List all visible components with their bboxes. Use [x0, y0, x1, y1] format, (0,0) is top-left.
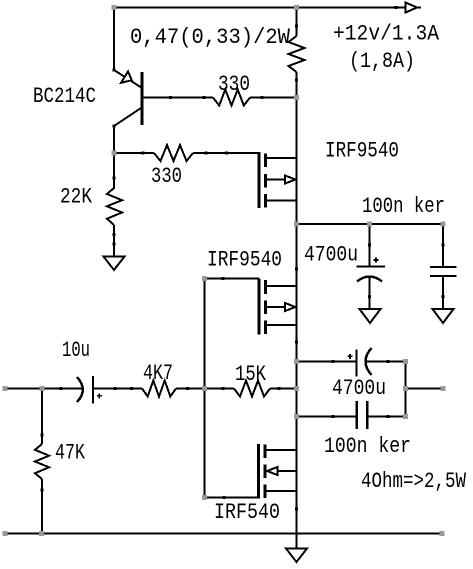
- node input terminal: [3, 386, 8, 391]
- capacitor C5 100n ker (output) left lead: [297, 416, 356, 418]
- capacitor C1 10u plates: [77, 377, 83, 402]
- MOSFET U1 source stub: [266, 157, 297, 159]
- resistor 47K lead bottom: [41, 479, 43, 534]
- wire top rail: [114, 7, 297, 9]
- MOSFET U2 IRF9540 (middle) gate wire: [205, 278, 260, 280]
- ground below 22K: [104, 257, 125, 271]
- capacitor C2 plus mark: [374, 259, 379, 261]
- MOSFET U3 source stub: [265, 490, 297, 492]
- node coupling bottom right corner: [403, 414, 408, 419]
- svg-text:4Ohm=>2,5W: 4Ohm=>2,5W: [361, 469, 467, 494]
- node 0,47 bottom / base resistor junction: [294, 95, 299, 100]
- wire resistor 330 lower to gate of U1: [193, 152, 259, 154]
- node top-left corner: [112, 5, 117, 10]
- svg-text:47K: 47K: [55, 441, 86, 466]
- MOSFET U3 body stub with arrow: [267, 467, 278, 475]
- wire node to resistor 330 (lower): [114, 152, 154, 154]
- capacitor C3 lead bottom: [442, 277, 444, 309]
- node top rail / 0,47 junction: [294, 5, 299, 10]
- svg-text:0,47(0,33)/2W: 0,47(0,33)/2W: [130, 25, 291, 50]
- pin dot: [395, 6, 398, 9]
- MOSFET U2 body stub with arrow: [266, 306, 286, 308]
- resistor 4K7: [142, 381, 176, 397]
- capacitor C4 plus mark: [348, 355, 353, 357]
- wire left vertical from top rail to emitter: [113, 8, 115, 71]
- svg-text:330: 330: [151, 164, 182, 189]
- capacitor C4 4700u plates: [355, 350, 357, 377]
- node gate rail / input line crossing: [202, 386, 207, 391]
- MOSFET U1 drain stub: [266, 200, 297, 202]
- MOSFET U2 drain stub: [266, 324, 297, 326]
- node 47K bottom on rail: [39, 531, 44, 536]
- MOSFET U3 gate wire: [205, 497, 259, 499]
- wire main rail from 0,47 node through U1 to output node: [296, 98, 298, 225]
- wire main rail U1 to U2: [295, 268, 298, 271]
- wire main rail through coupling block: [296, 362, 298, 417]
- resistor 47K: [35, 444, 49, 479]
- node output filter rail left: [294, 222, 299, 227]
- svg-text:10u: 10u: [62, 338, 90, 363]
- wire U3 source rail to ground: [296, 450, 298, 549]
- wire top right to supply arrow: [297, 7, 406, 9]
- wire 4K7 to 15K: [176, 388, 234, 390]
- resistor 22K lead top: [113, 153, 115, 189]
- node bottom-right terminal: [440, 531, 445, 536]
- transistor Q1 emitter arrow: [121, 72, 132, 83]
- capacitor C3 100n plates: [430, 266, 457, 268]
- svg-text:4700u: 4700u: [304, 243, 358, 268]
- resistor 22K: [107, 188, 122, 225]
- node bottom-left terminal: [3, 531, 8, 536]
- capacitor C4 4700u (output coupling) left lead: [297, 361, 356, 363]
- ground below C2: [360, 309, 381, 323]
- resistor 330 (lower, gate): [154, 145, 193, 161]
- svg-text:4K7: 4K7: [143, 361, 173, 386]
- capacitor C2 4700u (supply filter) lead top: [369, 224, 371, 266]
- svg-text:BC214C: BC214C: [33, 84, 96, 109]
- MOSFET U2 channel dashes: [264, 280, 267, 294]
- node U2 gate corner: [202, 276, 207, 281]
- node output terminal: [441, 386, 446, 391]
- wire C1 to resistor 4K7: [94, 388, 142, 390]
- MOSFET U1 body stub with arrow: [266, 179, 286, 181]
- node coupling top right corner: [403, 359, 408, 364]
- wire gate rail left: [204, 279, 206, 498]
- node U3 gate corner: [202, 495, 207, 500]
- ground below C3: [433, 309, 454, 323]
- wire bottom rail: [5, 533, 442, 535]
- capacitor C5 100n plates: [356, 401, 358, 429]
- svg-text:(1,8A): (1,8A): [349, 49, 415, 74]
- svg-text:IRF9540: IRF9540: [325, 139, 399, 164]
- svg-text:IRF9540: IRF9540: [207, 248, 282, 273]
- transistor Q1 collector diagonal: [114, 108, 141, 126]
- resistor 15K: [234, 381, 270, 397]
- capacitor C4 right lead: [366, 361, 406, 363]
- node coupling bottom left: [294, 414, 299, 419]
- wire 100n ker rail: [297, 223, 444, 225]
- wire base to resistor 330 (upper): [142, 97, 213, 99]
- svg-text:330: 330: [218, 72, 250, 97]
- resistor 330 (upper, base): [213, 90, 250, 106]
- MOSFET U3 IRF540 gate bar: [257, 444, 260, 499]
- MOSFET U2 source stub: [266, 285, 297, 287]
- resistor 47K lead top: [41, 389, 43, 445]
- transistor Q1 base bar: [141, 72, 144, 125]
- +12V supply arrow terminal: [406, 3, 418, 13]
- capacitor C2 4700u plates: [356, 265, 385, 267]
- node 47K junction: [40, 386, 45, 391]
- transistor Q1 BC214C emitter diagonal: [113, 69, 116, 72]
- wire output block right vertical: [405, 362, 407, 417]
- svg-text:IRF540: IRF540: [214, 500, 280, 525]
- MOSFET U1 IRF9540 (upper) gate bar: [258, 152, 261, 208]
- svg-text:+12v/1.3A: +12v/1.3A: [333, 22, 440, 47]
- svg-text:100n ker: 100n ker: [324, 434, 411, 459]
- MOSFET U3 channel dashes: [264, 445, 267, 459]
- wire output tap: [406, 388, 442, 390]
- node output tap on right vertical: [403, 386, 408, 391]
- node coupling top left: [294, 359, 299, 364]
- MOSFET U1 channel dashes: [264, 154, 267, 168]
- resistor 22K lead bottom: [113, 225, 115, 257]
- node 4700u filter tap: [367, 222, 372, 227]
- ground below U3: [286, 549, 307, 563]
- resistor 0,47 lead top: [296, 8, 298, 37]
- svg-text:4700u: 4700u: [332, 376, 386, 401]
- capacitor C2 lead bottom: [369, 277, 371, 309]
- node 15K right on rail: [294, 386, 299, 391]
- wire main rail to U3: [296, 417, 298, 451]
- capacitor C3 100n ker (supply filter) lead top: [442, 224, 444, 266]
- capacitor C5 right lead: [368, 416, 406, 418]
- svg-text:22K: 22K: [60, 185, 93, 210]
- MOSFET U3 drain stub: [265, 449, 297, 451]
- wire collector down to node: [113, 126, 115, 153]
- svg-text:100n ker: 100n ker: [362, 194, 445, 219]
- node 100n filter tap: [441, 222, 446, 227]
- wire 15K to rail: [270, 388, 297, 390]
- svg-text:15K: 15K: [235, 362, 267, 387]
- resistor 0,47 lead bottom: [296, 72, 298, 98]
- wire input line: [5, 388, 82, 390]
- node collector junction: [112, 151, 117, 156]
- capacitor C1 plus mark: [97, 395, 102, 397]
- MOSFET U2 gate bar: [258, 279, 261, 335]
- wire resistor 330 upper to node: [250, 97, 297, 99]
- resistor 0,47(0,33)/2W: [289, 36, 305, 72]
